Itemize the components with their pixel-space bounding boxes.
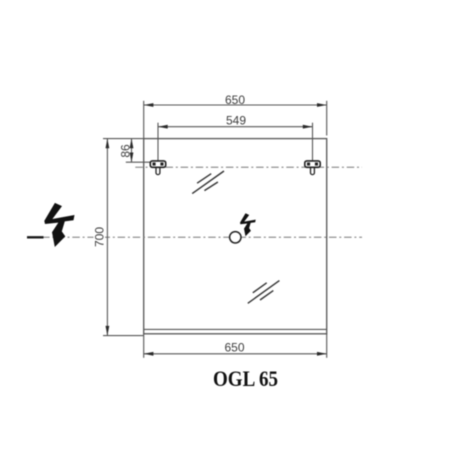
socket bolt small (240, 213, 256, 236)
dim 650 bottom extension left (143, 334, 145, 358)
centerline bracket axis (135, 166, 362, 168)
dim 650 top extension left (143, 101, 145, 139)
dim 549 arrow right (303, 125, 313, 129)
bracket left hole B (160, 163, 163, 166)
dim 650 top arrow left (144, 103, 154, 107)
svg-text:650: 650 (225, 93, 245, 107)
dim 700 lower extension (103, 335, 144, 337)
svg-text:650: 650 (224, 341, 244, 355)
dim 549 extension right (312, 123, 314, 161)
dim 650 bottom line (144, 353, 327, 355)
dim 700 text backing (94, 226, 106, 249)
dim 86 arrow top (130, 139, 134, 149)
dim 650 top line (144, 104, 327, 106)
svg-text:700: 700 (92, 227, 106, 247)
svg-text:OGL 65: OGL 65 (213, 366, 278, 391)
mirror bottom inner edge (144, 328, 327, 330)
bracket right body (305, 161, 320, 167)
hatch bottom group (248, 281, 280, 304)
dim 700 upper extension (103, 138, 144, 140)
dim 700 arrow bottom (106, 326, 110, 336)
bracket right hole A (307, 163, 310, 166)
dim 650 bottom arrow left (144, 352, 154, 356)
dim 86 lower extension (126, 161, 151, 163)
dim 650 bottom extension right (326, 334, 328, 358)
power bolt big (44, 203, 74, 247)
dim 549 arrow left (158, 125, 168, 129)
hatch top group (192, 171, 224, 194)
dim 700 arrow top (106, 139, 110, 149)
bracket left hole A (153, 163, 156, 166)
bracket right hole B (315, 163, 318, 166)
svg-text:549: 549 (226, 114, 246, 128)
bracket left body (150, 161, 165, 167)
socket circle (230, 232, 241, 243)
bracket right tab (311, 166, 315, 175)
svg-text:86: 86 (118, 144, 132, 158)
centerline middle axis (27, 236, 362, 238)
dim 650 top arrow right (317, 103, 327, 107)
dim 549 extension left (157, 123, 159, 161)
bracket left tab (156, 166, 160, 175)
mirror outline (144, 139, 327, 334)
dim 650 top extension right (326, 101, 328, 136)
dim 549 line (158, 126, 313, 128)
dim 650 bottom arrow right (317, 352, 327, 356)
centerline start tick (27, 236, 44, 238)
dim 700 line (106, 139, 108, 336)
dim 86 arrow bottom (130, 153, 134, 163)
dim 86 line (131, 139, 133, 163)
